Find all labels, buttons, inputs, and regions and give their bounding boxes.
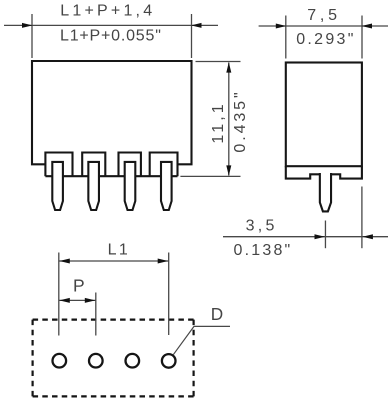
arrow right pin offset [362,234,373,239]
solder pin hole 1 [53,354,67,368]
arrow right front width [191,23,202,28]
dimension line L1 [59,260,169,262]
extension line bottom (height dim) [180,175,240,177]
arrow L1 left [59,259,70,264]
dimension line height [228,63,230,176]
arrow P right [85,298,96,303]
extension line L1 left [58,253,60,336]
extension line left (front width dim) [31,14,33,58]
dimension line pin offset [223,236,388,238]
collar 2 [82,153,105,177]
arrow right side width [362,24,373,29]
dimension line P [59,299,96,301]
svg-text:0.435": 0.435" [232,89,249,152]
extension line right (side width dim) [361,16,363,59]
collar bottom line [45,175,177,177]
extension line pin center (offset dim) [324,221,326,249]
collar 3 [119,153,141,177]
arrow up height [226,62,231,73]
pin 4 front [161,162,172,210]
extension line housing edge (offset dim) [361,187,363,249]
svg-text:0.138": 0.138" [234,242,293,259]
arrow left pin offset [315,234,325,239]
svg-text:L1+P+0.055": L1+P+0.055" [60,27,162,44]
svg-text:L1+P+1,4: L1+P+1,4 [60,3,155,20]
collar 1 [45,153,72,177]
leader line D [173,326,230,354]
extension line left (side width dim) [285,16,287,59]
svg-text:D: D [211,304,223,324]
arrow left side width [276,24,287,29]
dimension line front width [4,24,218,26]
solder pin hole 4 [162,354,176,368]
extension line right (front width dim) [191,14,193,58]
extension line L1 right [168,253,170,336]
arrow P left [59,298,70,303]
collar 4 [150,153,178,177]
svg-text:P: P [73,276,85,296]
dimension line side width [259,25,388,27]
housing side view [286,63,362,167]
svg-text:11,1: 11,1 [210,101,227,143]
svg-text:0.293": 0.293" [296,31,356,48]
svg-text:L1: L1 [108,241,131,258]
pin 2 front [88,162,99,210]
extension line top (height dim) [196,61,241,63]
pin 3 front [125,162,136,210]
extension line P right [95,293,97,336]
pin side view [320,173,331,211]
svg-text:3,5: 3,5 [246,217,278,234]
arrow down height [226,165,231,176]
housing front view outline [32,61,192,164]
arrow left front width [22,23,33,28]
pin 1 front [52,162,63,210]
arrow L1 right [158,259,169,264]
svg-text:7,5: 7,5 [307,7,341,24]
solder pin hole 2 [89,354,103,368]
flange side view [286,166,362,178]
bottom view dashed outline [33,319,194,321]
solder pin hole 3 [126,354,140,368]
